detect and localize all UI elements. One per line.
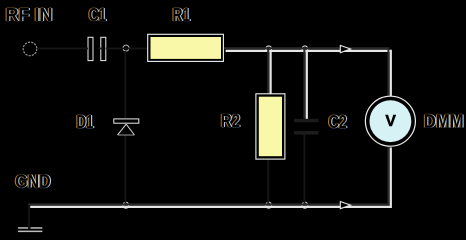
svg-text:GND: GND (15, 172, 50, 192)
junction ground rail C2 (302, 202, 308, 208)
capacitor C2 (294, 119, 319, 135)
diode D1 anode triangle (118, 124, 135, 135)
svg-text:RF IN: RF IN (6, 5, 53, 25)
capacitor C1 (88, 37, 106, 60)
junction ground rail D1 (123, 202, 129, 208)
wire top rail R1 to DMM white shadow (226, 51, 391, 98)
junction top rail C2 (302, 46, 308, 52)
resistor R2 (256, 94, 285, 159)
svg-text:R2: R2 (221, 111, 240, 131)
junction top rail R2 (266, 46, 272, 52)
wire top rail down to R2 (268, 48, 270, 94)
wire top rail R1 to DMM black (223, 48, 388, 97)
svg-text:R1: R1 (173, 5, 191, 25)
wire C2 bottom to ground rail (303, 135, 305, 204)
svg-text:D1: D1 (77, 112, 94, 132)
wire ground rail and DMM return white shadow (30, 148, 391, 207)
label C1 (88, 4, 108, 26)
node junction C1/R1/D1 (123, 45, 129, 51)
label D1 (75, 111, 94, 133)
label DMM (423, 110, 465, 132)
wire C1 to R1 through node (98, 48, 148, 50)
label GND (14, 171, 52, 193)
meter DMM voltmeter (365, 96, 415, 146)
resistor R1 (148, 34, 224, 61)
arrow current direction top rail (340, 45, 350, 52)
ground symbol (18, 227, 42, 232)
terminal RF IN input connector (23, 42, 37, 56)
label R2 (220, 110, 242, 132)
svg-text:DMM: DMM (424, 111, 464, 131)
wire top rail down to C2 (304, 48, 306, 119)
diode D1 cathode bar (114, 119, 139, 123)
junction ground rail R2 (266, 202, 272, 208)
wire ground rail and DMM return black (28, 147, 388, 205)
label R1 (172, 4, 192, 26)
wire R2 bottom to ground rail (267, 158, 269, 204)
wire GND drop (28, 205, 30, 230)
wire D1 branch vertical to ground rail (124, 51, 126, 205)
wire RF IN to C1 (37, 48, 88, 50)
label RF IN (4, 4, 53, 26)
svg-text:C1: C1 (89, 5, 107, 25)
svg-text:V: V (385, 113, 396, 130)
arrow current direction bottom rail (340, 202, 350, 209)
label C2 (327, 111, 348, 133)
svg-text:C2: C2 (329, 112, 347, 132)
